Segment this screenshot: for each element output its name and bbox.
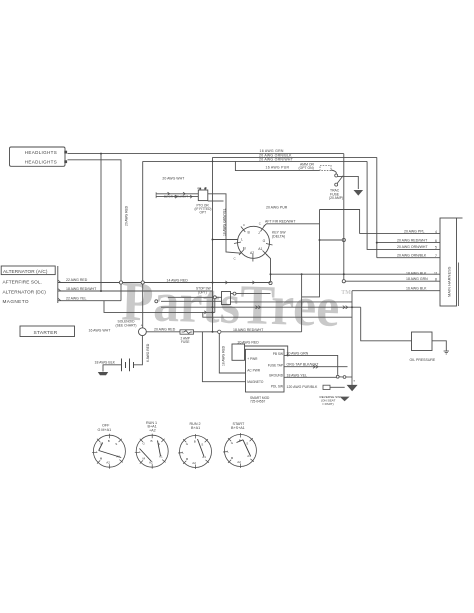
wire key L from riser [213, 239, 238, 241]
switch position circle RUN2 [180, 436, 212, 468]
svg-text:5: 5 [435, 246, 437, 250]
module left labels [247, 357, 264, 384]
smart module box [246, 349, 285, 392]
svg-text:A1: A1 [258, 247, 262, 251]
wire main vertical B+ riser [212, 157, 214, 331]
RUN2 letters [182, 439, 206, 465]
module part number [250, 396, 270, 404]
connector chevrons bus307 right [343, 306, 348, 309]
node dot magneto drop crossing riser [212, 311, 214, 313]
wire magneto row [58, 300, 121, 302]
svg-text:PB SW: PB SW [273, 352, 283, 356]
svg-text:20 AWG RED: 20 AWG RED [238, 341, 260, 345]
OFF connection lines [99, 443, 122, 458]
chevrons module row2 [313, 365, 318, 368]
node dot branch 240 [319, 239, 321, 241]
svg-text:20 AWG ORN/WHT: 20 AWG ORN/WHT [397, 245, 428, 249]
svg-text:20 AWG GRN: 20 AWG GRN [287, 351, 309, 355]
wire PTO right to key M vertical [208, 194, 241, 253]
svg-text:(DELTA): (DELTA) [272, 234, 285, 238]
svg-text:S: S [246, 441, 248, 445]
node open circle A1 end [269, 281, 272, 284]
headlights box [10, 147, 66, 166]
svg-text:HEADLIGHTS: HEADLIGHTS [25, 150, 57, 155]
node open circle V344 upper [342, 238, 345, 241]
svg-text:16 AWG GRN: 16 AWG GRN [260, 149, 284, 153]
wire branch to V344 [320, 239, 343, 241]
stop switch text [196, 287, 211, 295]
svg-text:A2: A2 [106, 461, 110, 465]
svg-text:BL OR ORN/WHT: BL OR ORN/WHT [164, 194, 188, 198]
wire cap left lower [161, 300, 222, 302]
svg-text:20 AWG RED: 20 AWG RED [124, 205, 128, 226]
wire module riser vertical [301, 274, 303, 332]
wire module AC PWR feed [219, 334, 245, 374]
svg-text:MAGNETO: MAGNETO [247, 380, 264, 384]
RUN2 ticks [178, 434, 209, 469]
svg-text:16 AWG BLK: 16 AWG BLK [406, 287, 427, 291]
svg-text:J: J [258, 231, 260, 235]
wire bus275 to connector [271, 273, 441, 275]
svg-text:= PART): = PART) [322, 402, 334, 406]
oil pressure wire riser [361, 307, 412, 341]
ammeter text [299, 163, 315, 170]
wire key S to afterfire line [264, 224, 320, 227]
battery plates [122, 359, 134, 372]
RUN2 header [190, 422, 201, 430]
wire solenoid to fuse [146, 331, 180, 333]
svg-text:M: M [186, 457, 189, 461]
wire ammeter to fuse holder [331, 170, 336, 174]
svg-text:L: L [96, 450, 98, 454]
switch position circle START [224, 435, 256, 467]
svg-text:B: B [194, 439, 196, 443]
wire bus B2 orn/blk [213, 156, 377, 158]
starter solenoid circle [139, 328, 147, 336]
svg-text:AFTERFIRE SOL.: AFTERFIRE SOL. [3, 280, 42, 285]
svg-text:B: B [151, 439, 153, 443]
node open circle V344 end [342, 280, 345, 283]
connector chevron magneto drop [204, 311, 206, 314]
node dot riser/B3 [212, 161, 214, 163]
svg-text:AC PWR: AC PWR [247, 368, 260, 372]
svg-text:OPT: OPT [200, 211, 207, 215]
svg-text:PDL SW: PDL SW [271, 385, 283, 389]
svg-text:C: C [259, 222, 261, 226]
wire key B riser branch [319, 210, 321, 297]
svg-text:120 AWG PUR/BLK: 120 AWG PUR/BLK [287, 385, 318, 389]
label PTO (IF FITTED) OPT [195, 204, 212, 215]
wire cap bottom to seat riser [231, 301, 353, 303]
svg-text:B+A1: B+A1 [191, 426, 200, 430]
svg-text:8: 8 [435, 277, 437, 281]
svg-text:L: L [182, 450, 184, 454]
RUN1 header [146, 421, 157, 433]
connector main harness box [440, 218, 463, 306]
OFF header [98, 423, 112, 432]
svg-text:B+S+A1: B+S+A1 [231, 426, 245, 430]
svg-text:20 AWG RED/WHT: 20 AWG RED/WHT [397, 238, 428, 242]
wire key A1 drop [266, 254, 271, 283]
wire V344 from top bus [343, 154, 345, 280]
svg-text:GROUND: GROUND [269, 374, 284, 378]
svg-text:18 AWG GRN: 18 AWG GRN [406, 277, 428, 281]
headlights label text [25, 150, 57, 164]
svg-text:+A2: +A2 [149, 429, 156, 433]
node dot riser bottom [212, 331, 214, 333]
OFF ticks [92, 434, 123, 469]
svg-text:A: A [197, 186, 199, 190]
key switch terminal letters [234, 222, 266, 261]
fuse holder contacts [335, 174, 343, 186]
node dot V344 bus275 [343, 273, 345, 275]
RUN2 connection lines [198, 439, 205, 457]
wire ground bus 307 [161, 306, 361, 308]
svg-text:ALTERNATOR (DC): ALTERNATOR (DC) [3, 289, 47, 294]
svg-text:4: 4 [435, 230, 437, 234]
wire solenoid feed vertical [142, 161, 144, 327]
svg-text:20 AWG PPL: 20 AWG PPL [404, 229, 425, 233]
svg-text:G: G [231, 441, 234, 445]
node dot module riser bus [301, 273, 303, 275]
svg-text:OIL PRESSURE: OIL PRESSURE [410, 358, 436, 362]
svg-text:6: 6 [435, 239, 437, 243]
label SOLENOID SEE CHART [116, 320, 137, 328]
node open circle solenoid riser afterfire [141, 281, 144, 284]
START ticks [223, 433, 254, 468]
chassis ground (battery fuse) [354, 190, 364, 196]
svg-text:14 AWG RED: 14 AWG RED [167, 279, 189, 283]
svg-text:16 AWG WHT: 16 AWG WHT [89, 329, 112, 333]
switch position circle OFF [93, 435, 125, 467]
svg-text:G M+A1: G M+A1 [98, 428, 112, 432]
svg-text:A2: A2 [250, 251, 254, 255]
wire magneto drop [104, 301, 215, 313]
RUN1 letters [139, 439, 163, 465]
label REVERSE SW [320, 395, 341, 406]
wire row4 to ground [330, 386, 345, 388]
wire afterfire row [58, 282, 271, 284]
svg-text:A1: A1 [159, 455, 163, 459]
wire seat riser [351, 291, 353, 377]
ground oil small [444, 351, 449, 354]
svg-text:20 AWG RED: 20 AWG RED [154, 328, 176, 332]
wire bus 317 [203, 312, 352, 317]
chassis ground reverse [340, 397, 350, 402]
watermark PartsTree [121, 271, 352, 339]
wire PTO right lower [208, 200, 224, 202]
wire oil to ground [432, 341, 446, 351]
svg-text:C: C [243, 223, 245, 227]
svg-text:FUSE TAP: FUSE TAP [268, 364, 283, 368]
svg-text:22 AWG YEL: 22 AWG YEL [66, 297, 86, 301]
svg-text:G: G [263, 239, 266, 243]
svg-text:+ PWR: + PWR [247, 357, 258, 361]
fuse small row4 [323, 385, 330, 389]
alternator pin ticks [58, 280, 61, 301]
wire into PTO left lower [156, 196, 198, 198]
wire headlight second to vertical [68, 160, 122, 301]
node dot module top drop [287, 354, 289, 356]
wire purple to ammeter [235, 161, 319, 170]
chassis ground seat [348, 377, 357, 391]
svg-text:G: G [186, 442, 189, 446]
svg-text:OFF: OFF [102, 423, 110, 427]
wire key B row to connector row1 riser [320, 210, 360, 234]
svg-text:18 AWG BLK: 18 AWG BLK [95, 361, 116, 365]
wire module row3 [284, 376, 336, 378]
wire cap right to A1 drop [231, 293, 271, 295]
svg-text:A2: A2 [192, 461, 196, 465]
svg-text:ALTERNATOR (A/C): ALTERNATOR (A/C) [3, 269, 48, 274]
svg-text:11: 11 [434, 272, 438, 276]
svg-text:AFT FIR RED/WHT: AFT FIR RED/WHT [265, 219, 296, 223]
node dot riser afterfire [212, 282, 214, 284]
svg-text:18 AWG GRN/YEL: 18 AWG GRN/YEL [222, 208, 226, 236]
svg-text:M: M [143, 457, 146, 461]
svg-text:MAGNETO: MAGNETO [3, 299, 29, 304]
wire fuse to riser circle [194, 331, 218, 333]
svg-text:7: 7 [435, 254, 437, 258]
svg-text:22 AWG RED: 22 AWG RED [66, 278, 88, 282]
wire into PTO left upper [156, 193, 198, 195]
node dot altdc headlight vertical [100, 290, 102, 292]
pin ticks PTO left [155, 192, 157, 198]
node open circle cap right [233, 292, 236, 295]
module right labels [268, 352, 284, 389]
svg-text:STARTER: STARTER [34, 330, 58, 336]
svg-text:18 AWG BLK: 18 AWG BLK [406, 272, 427, 276]
starter box [20, 326, 75, 337]
node dot riser L [212, 239, 214, 241]
svg-text:L: L [241, 237, 243, 241]
wire vertical from headlight bus down [100, 154, 102, 291]
wire battery to ground [103, 365, 122, 372]
OFF letters [96, 439, 120, 465]
wire row6 to connector [345, 280, 440, 282]
key switch terminal ticks [234, 225, 273, 261]
svg-text:725-04567: 725-04567 [250, 400, 265, 404]
svg-text:G: G [143, 442, 146, 446]
PTO relay box [197, 186, 208, 200]
wire fuse to ground [338, 176, 359, 189]
connector arrows PTO wires [168, 192, 193, 198]
earth ground battery [98, 372, 108, 375]
svg-text:20 AWG ORN/BLK: 20 AWG ORN/BLK [397, 253, 427, 257]
wire module top red [245, 346, 288, 355]
svg-text:18 AWG YEL: 18 AWG YEL [287, 373, 307, 377]
ammeter dashed box (OPT) [320, 165, 331, 170]
svg-text:20 AWG PUR: 20 AWG PUR [266, 205, 288, 209]
svg-text:(OPT): (OPT) [198, 290, 207, 294]
svg-text:B: B [248, 231, 251, 235]
alternator AC box [1, 266, 55, 275]
wire cap circle drop [214, 299, 216, 313]
connector pin numbers [434, 230, 438, 282]
svg-text:(20 AMP): (20 AMP) [329, 196, 343, 200]
svg-text:(OPT ON): (OPT ON) [299, 166, 314, 170]
svg-text:20 AWG ORN/WHT: 20 AWG ORN/WHT [259, 158, 294, 162]
fuse 2A box [180, 330, 194, 334]
label TRAC FUSE 20 AMP [329, 189, 343, 201]
node junction headlight bus [100, 153, 102, 155]
svg-text:18 AWG RED: 18 AWG RED [221, 345, 225, 366]
svg-text:16 AWG PUR: 16 AWG PUR [266, 165, 290, 169]
svg-text:M: M [100, 457, 103, 461]
oil pressure box [412, 332, 433, 351]
switch position circle RUN1 [136, 435, 168, 467]
START letters [227, 438, 251, 464]
svg-text:M: M [243, 247, 246, 251]
svg-text:B: B [108, 439, 110, 443]
node open circle cap left [213, 296, 216, 299]
headlights pin squares [64, 151, 67, 163]
svg-text:L: L [139, 450, 141, 454]
wire B+ circle to module riser [221, 331, 302, 333]
svg-text:L: L [227, 449, 229, 453]
wire module row2 [284, 366, 348, 368]
svg-text:A2: A2 [237, 460, 241, 464]
node dot row2 riser [376, 242, 378, 244]
node open circle cap lower left [155, 300, 158, 303]
wire row2 riser and to connector [377, 157, 440, 257]
label 2 AMP FUSE [181, 336, 190, 344]
svg-text:s: s [354, 379, 356, 383]
svg-text:S: S [201, 442, 203, 446]
wire headlight top bus [68, 153, 344, 155]
wire branch bottom edge [302, 296, 320, 298]
wire module magneto feed [202, 332, 245, 382]
key switch circle [238, 226, 270, 258]
svg-text:20 AWG WHT: 20 AWG WHT [162, 176, 185, 180]
capacitor relay box [222, 292, 231, 305]
node dot bus cap drop [351, 306, 353, 308]
label KEY SW (DELTA) [272, 231, 286, 239]
node A1 bus crossing [270, 273, 272, 275]
wire module row1 [284, 355, 338, 375]
svg-text:18 AWG RED/WHT: 18 AWG RED/WHT [233, 328, 264, 332]
wire row7 to connector [352, 290, 440, 292]
svg-text:C: C [234, 257, 237, 261]
RUN1 connection lines [140, 441, 161, 462]
svg-text:M: M [231, 456, 234, 460]
wire alternator pin bus [57, 266, 59, 303]
START header [231, 422, 245, 430]
connector chevrons afterfire [225, 281, 254, 284]
svg-text:A1: A1 [202, 455, 206, 459]
connector chevrons bus307 left [256, 306, 261, 309]
START connection lines [237, 440, 251, 456]
diode box module [232, 344, 245, 360]
svg-text:TM: TM [341, 290, 351, 296]
node dot bus riser212 [212, 306, 214, 308]
wire row3 riser to connector [367, 161, 440, 249]
seat switch contacts [336, 375, 352, 378]
svg-text:HEADLIGHTS: HEADLIGHTS [25, 159, 57, 164]
svg-text:(SEE CHART): (SEE CHART) [116, 323, 137, 327]
svg-text:FUSE: FUSE [181, 340, 190, 344]
RUN1 ticks [135, 434, 166, 469]
node open circle B+ [218, 330, 221, 333]
wire row1 to connector [360, 233, 440, 235]
svg-text:6 AWG RED: 6 AWG RED [146, 343, 150, 362]
node open circle crossing afterfire [119, 281, 122, 284]
svg-text:18 AWG RED/WHT: 18 AWG RED/WHT [66, 287, 97, 291]
wire alt dc row [58, 290, 213, 292]
svg-text:S: S [115, 442, 117, 446]
wire cap left upper [168, 296, 222, 298]
wire solenoid down to battery [134, 336, 143, 365]
svg-text:MAIN HARNESS: MAIN HARNESS [446, 266, 451, 297]
wire bus B3 orn/wht [143, 160, 367, 162]
